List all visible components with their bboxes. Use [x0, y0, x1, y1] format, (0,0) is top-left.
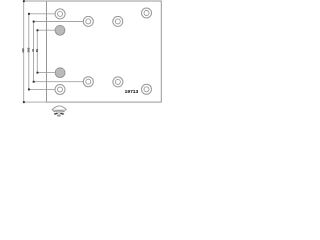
- hole H inner: [58, 87, 63, 92]
- wire: leader to hole A: [29, 13, 55, 15]
- hole B outer: [83, 16, 93, 26]
- hole A outer: [55, 9, 65, 19]
- hole J outer: [113, 77, 123, 87]
- wire: top edge extension: [24, 0, 47, 2]
- hole D outer: [142, 8, 152, 18]
- dimension line D1: [23, 1, 25, 102]
- hole E inner: [115, 19, 120, 24]
- wire: bottom edge extension: [24, 101, 47, 103]
- side view outline: [52, 106, 66, 110]
- node dot D3 bottom: [33, 81, 35, 83]
- node dot D4 bottom: [37, 72, 39, 74]
- lining plate outline: [47, 1, 162, 102]
- wire: leader to hole G: [34, 81, 84, 83]
- node dot D2 top: [28, 13, 30, 15]
- node dot D1 bottom: [23, 101, 25, 103]
- svg-text:19713: 19713: [125, 89, 139, 95]
- hole E outer: [113, 16, 123, 26]
- wire: leader to hatched hole C: [37, 29, 55, 31]
- dimension line D4: [36, 30, 38, 72]
- hole I outer: [142, 84, 152, 94]
- hatched hole C: [55, 25, 65, 35]
- hole A inner: [58, 11, 63, 16]
- hole D inner: [144, 11, 149, 16]
- hole G outer: [83, 77, 93, 87]
- hatched hole F: [55, 68, 65, 78]
- wire: leader to hole H: [29, 88, 55, 90]
- side view lining bottom arc: [54, 112, 64, 115]
- hole I inner: [144, 87, 149, 92]
- node dot D1 top: [23, 0, 25, 2]
- wire: leader to hatched hole F: [37, 72, 55, 74]
- hole G inner: [86, 79, 91, 84]
- hole J inner: [115, 79, 120, 84]
- dimension line D2: [28, 14, 30, 90]
- side view right wedge: [60, 113, 63, 114]
- hole H outer: [55, 85, 65, 95]
- svg-text:102: 102: [26, 47, 30, 52]
- svg-text:89: 89: [35, 49, 39, 53]
- side view lining top line: [53, 110, 64, 112]
- wire: leader to hole B: [34, 21, 84, 23]
- svg-text:60: 60: [57, 114, 61, 118]
- svg-text:230: 230: [21, 48, 25, 53]
- node dot D2 bottom: [28, 89, 30, 91]
- side view left wedge: [54, 113, 57, 114]
- hole B inner: [86, 19, 91, 24]
- node dot D4 top: [37, 29, 39, 31]
- dimension line D3: [33, 22, 35, 82]
- node dot D3 top: [33, 21, 35, 23]
